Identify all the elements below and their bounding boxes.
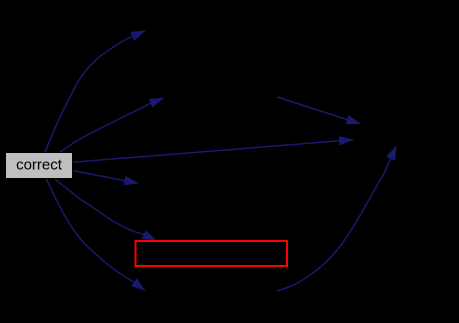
node correct (gray filled box with label): [6, 153, 73, 179]
red node (truncated node, red border, black fill): [136, 241, 288, 266]
edge correct->node2 (upper middle curve): [60, 98, 163, 152]
edge correct->red node (curve into red box): [54, 178, 156, 241]
edge correct->node6 (bottom-left curve): [46, 178, 145, 291]
edge correct->node5 (short straight edge): [72, 171, 138, 184]
svg-text:correct: correct: [16, 157, 63, 174]
edge node6->node7 (bottom-right rising curve): [277, 146, 396, 291]
edge correct->node1 (top curve): [45, 31, 145, 153]
edge node2->node3 (middle straight edge): [277, 97, 360, 124]
edge correct->node4 (long straight edge to right): [72, 140, 353, 163]
